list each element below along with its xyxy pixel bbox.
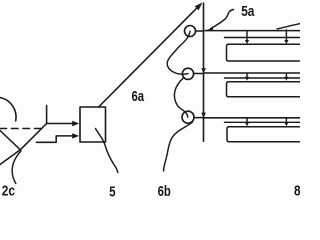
tray bar row1 bbox=[227, 44, 303, 61]
arrowhead 6a bbox=[195, 3, 203, 11]
circle nozzle row2 bbox=[182, 68, 193, 79]
tray bar row3 bbox=[227, 127, 302, 142]
fan blade lower-left limb bbox=[0, 150, 20, 165]
dashed axis line bbox=[0, 128, 41, 130]
drop arrow row3 left bbox=[246, 118, 248, 122]
line 6a diagonal arrow bbox=[99, 7, 199, 107]
spray line B1 bbox=[225, 37, 301, 39]
wire vertical stub above corner bbox=[46, 106, 48, 124]
drop arrow row3 right bbox=[285, 118, 287, 122]
stub circle2 to manifold bbox=[194, 73, 204, 75]
svg-text:5: 5 bbox=[109, 183, 115, 200]
svg-text:2c: 2c bbox=[2, 182, 15, 198]
stub circle1 to manifold bbox=[196, 30, 204, 32]
drop arrow row2 right bbox=[285, 73, 287, 77]
wire lower step line into box 5 bbox=[37, 136, 74, 142]
svg-text:8: 8 bbox=[294, 182, 300, 199]
chain squiggle c2 to c3 bbox=[174, 78, 187, 117]
circle nozzle row1 bbox=[185, 26, 196, 37]
junction arrowhead row2 bbox=[201, 68, 206, 73]
svg-text:6b: 6b bbox=[158, 183, 171, 200]
arrowhead 5a bbox=[206, 28, 214, 31]
leader 8 branch bbox=[277, 24, 300, 29]
junction arrowhead row3 bbox=[201, 113, 206, 118]
wire upper arrow line into box 5 bbox=[47, 123, 73, 125]
wire diagonal from fan vertex to corner bbox=[20, 124, 46, 150]
row line A1 bbox=[204, 30, 301, 32]
svg-text:6a: 6a bbox=[132, 88, 145, 105]
svg-text:5a: 5a bbox=[241, 3, 255, 20]
leader 2c bbox=[12, 151, 21, 184]
arrowhead upper into box bbox=[72, 121, 79, 126]
arrowhead lower into box bbox=[72, 133, 79, 138]
spray line B2 bbox=[225, 77, 301, 79]
drop arrow row1 left bbox=[246, 31, 248, 41]
drop arrow row1 right bbox=[285, 30, 287, 41]
fan blade upper-left limb bbox=[0, 131, 20, 150]
spray line B3 bbox=[225, 121, 301, 123]
row line A3 bbox=[204, 117, 301, 119]
tray bar row2 bbox=[227, 82, 303, 97]
circle nozzle row3 bbox=[182, 111, 194, 123]
fan arc 2c housing bbox=[0, 98, 16, 121]
chain squiggle c1 to c2 bbox=[167, 31, 190, 74]
vertical manifold line bbox=[203, 3, 205, 141]
box 5 (controller) bbox=[80, 107, 106, 142]
leader 5a squiggle with arrow bbox=[211, 10, 234, 29]
leader 6b from circle3 bbox=[164, 122, 193, 171]
leader 5 bbox=[96, 129, 118, 173]
drop arrow row2 left bbox=[246, 73, 248, 77]
stub circle3 to manifold bbox=[194, 117, 204, 119]
row line A2 bbox=[204, 72, 301, 74]
